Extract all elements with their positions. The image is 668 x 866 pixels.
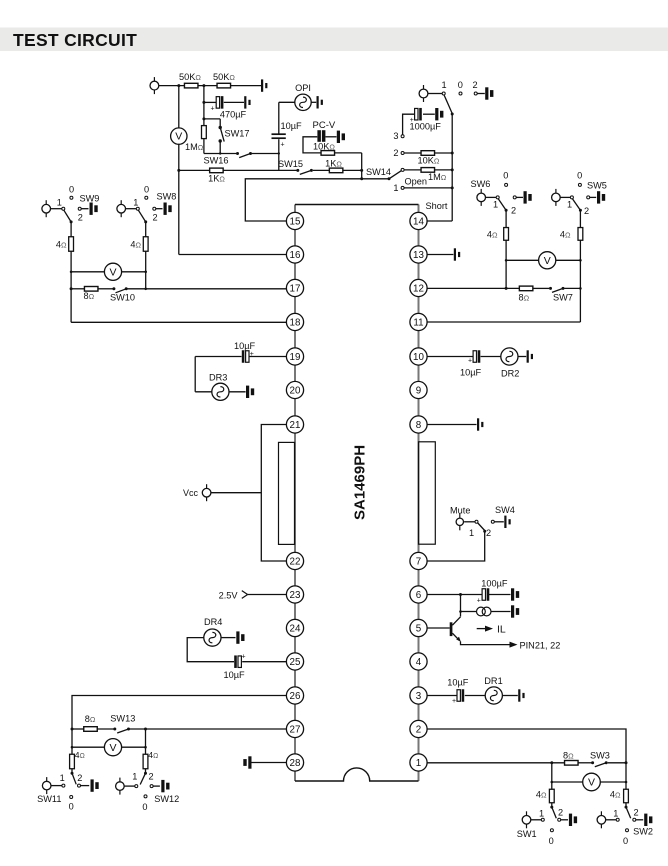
svg-text:11: 11 bbox=[413, 317, 423, 328]
svg-text:2: 2 bbox=[393, 148, 398, 158]
svg-text:DR2: DR2 bbox=[501, 369, 519, 379]
svg-text:14: 14 bbox=[413, 216, 424, 227]
svg-text:+: + bbox=[468, 357, 472, 364]
svg-text:DR4: DR4 bbox=[204, 617, 222, 627]
svg-text:Vcc: Vcc bbox=[183, 488, 199, 498]
svg-text:0: 0 bbox=[549, 836, 554, 846]
svg-text:V: V bbox=[544, 255, 551, 267]
svg-text:25: 25 bbox=[290, 657, 301, 668]
svg-text:SW16: SW16 bbox=[204, 156, 229, 166]
svg-text:10KΩ: 10KΩ bbox=[313, 142, 335, 152]
svg-text:0: 0 bbox=[69, 802, 74, 812]
svg-text:V: V bbox=[109, 266, 116, 278]
svg-text:SA1469PH: SA1469PH bbox=[351, 445, 368, 520]
svg-text:+: + bbox=[280, 142, 284, 149]
svg-text:10µF: 10µF bbox=[224, 670, 246, 680]
svg-text:2: 2 bbox=[486, 528, 491, 538]
svg-text:SW14: SW14 bbox=[366, 167, 391, 177]
svg-text:1KΩ: 1KΩ bbox=[208, 174, 225, 184]
svg-text:28: 28 bbox=[290, 758, 301, 769]
svg-text:DR1: DR1 bbox=[484, 676, 502, 686]
svg-text:4: 4 bbox=[416, 657, 422, 668]
svg-text:9: 9 bbox=[416, 385, 421, 396]
svg-text:6: 6 bbox=[416, 590, 422, 601]
svg-text:SW11: SW11 bbox=[37, 794, 61, 804]
svg-text:SW12: SW12 bbox=[154, 794, 179, 804]
svg-text:2: 2 bbox=[152, 213, 157, 223]
svg-text:1000µF: 1000µF bbox=[410, 121, 442, 131]
svg-text:21: 21 bbox=[290, 420, 301, 431]
svg-text:4Ω: 4Ω bbox=[56, 240, 67, 250]
svg-text:0: 0 bbox=[458, 80, 463, 90]
svg-text:SW3: SW3 bbox=[590, 751, 610, 761]
svg-text:PC-V: PC-V bbox=[313, 120, 336, 131]
svg-text:+: + bbox=[452, 698, 456, 705]
svg-text:1: 1 bbox=[133, 197, 138, 207]
svg-text:0: 0 bbox=[144, 185, 149, 195]
svg-text:1: 1 bbox=[57, 197, 62, 207]
svg-text:SW10: SW10 bbox=[110, 293, 135, 303]
svg-text:Short: Short bbox=[426, 201, 448, 211]
svg-text:470µF: 470µF bbox=[220, 110, 247, 120]
svg-text:+: + bbox=[250, 351, 254, 358]
svg-text:24: 24 bbox=[290, 623, 301, 634]
svg-text:3: 3 bbox=[416, 691, 422, 702]
svg-text:1: 1 bbox=[60, 773, 65, 783]
svg-text:22: 22 bbox=[290, 556, 301, 567]
svg-text:2: 2 bbox=[77, 773, 82, 783]
svg-text:SW2: SW2 bbox=[633, 827, 653, 837]
svg-text:SW15: SW15 bbox=[278, 159, 303, 169]
svg-text:100µF: 100µF bbox=[481, 579, 508, 589]
svg-text:1: 1 bbox=[132, 772, 137, 782]
svg-text:10: 10 bbox=[413, 352, 424, 363]
svg-text:10µF: 10µF bbox=[447, 677, 469, 687]
svg-text:8Ω: 8Ω bbox=[519, 292, 530, 302]
svg-text:2: 2 bbox=[472, 80, 477, 90]
svg-text:20: 20 bbox=[290, 385, 301, 396]
svg-text:+: + bbox=[210, 106, 214, 113]
svg-text:2: 2 bbox=[148, 772, 153, 782]
svg-text:50KΩ: 50KΩ bbox=[179, 72, 201, 82]
svg-text:0: 0 bbox=[142, 802, 147, 812]
svg-text:17: 17 bbox=[290, 283, 301, 294]
svg-text:2: 2 bbox=[558, 808, 563, 818]
svg-text:27: 27 bbox=[290, 724, 301, 735]
svg-text:12: 12 bbox=[413, 283, 424, 294]
svg-text:TEST CIRCUIT: TEST CIRCUIT bbox=[13, 30, 137, 50]
svg-text:PIN21, 22: PIN21, 22 bbox=[520, 641, 561, 651]
svg-text:1: 1 bbox=[539, 808, 544, 818]
svg-text:2: 2 bbox=[511, 206, 516, 216]
svg-text:1: 1 bbox=[469, 528, 474, 538]
svg-text:SW9: SW9 bbox=[80, 194, 100, 204]
svg-text:13: 13 bbox=[413, 250, 424, 261]
svg-text:4Ω: 4Ω bbox=[536, 789, 547, 799]
svg-text:V: V bbox=[588, 777, 595, 789]
svg-text:4Ω: 4Ω bbox=[487, 229, 498, 239]
svg-text:10KΩ: 10KΩ bbox=[418, 156, 440, 166]
svg-text:7: 7 bbox=[416, 556, 421, 567]
svg-text:SW4: SW4 bbox=[495, 505, 515, 515]
svg-text:0: 0 bbox=[577, 171, 582, 181]
svg-text:18: 18 bbox=[290, 317, 301, 328]
svg-text:1: 1 bbox=[416, 758, 421, 769]
svg-text:8Ω: 8Ω bbox=[563, 750, 574, 760]
svg-text:V: V bbox=[175, 131, 182, 143]
svg-text:19: 19 bbox=[290, 352, 301, 363]
svg-text:+: + bbox=[242, 654, 246, 661]
svg-text:0: 0 bbox=[503, 171, 508, 181]
svg-text:IL: IL bbox=[497, 623, 506, 635]
svg-text:10µF: 10µF bbox=[460, 367, 482, 377]
svg-text:Mute: Mute bbox=[450, 506, 470, 516]
svg-text:1: 1 bbox=[567, 200, 572, 210]
svg-text:SW8: SW8 bbox=[157, 192, 177, 202]
svg-text:4Ω: 4Ω bbox=[560, 229, 571, 239]
svg-text:4Ω: 4Ω bbox=[130, 240, 141, 250]
svg-text:OPI: OPI bbox=[295, 83, 311, 93]
svg-text:DR3: DR3 bbox=[209, 373, 227, 383]
svg-text:26: 26 bbox=[290, 691, 301, 702]
svg-text:1: 1 bbox=[493, 200, 498, 210]
svg-text:0: 0 bbox=[69, 185, 74, 195]
svg-text:2: 2 bbox=[584, 206, 589, 216]
svg-text:SW7: SW7 bbox=[553, 293, 573, 303]
svg-text:3: 3 bbox=[393, 131, 398, 141]
svg-text:1: 1 bbox=[442, 80, 447, 90]
svg-text:1MΩ: 1MΩ bbox=[428, 172, 447, 182]
svg-text:8Ω: 8Ω bbox=[85, 714, 96, 724]
svg-text:SW13: SW13 bbox=[110, 713, 135, 723]
svg-text:10µF: 10µF bbox=[281, 121, 303, 131]
svg-text:8Ω: 8Ω bbox=[84, 291, 95, 301]
svg-text:50KΩ: 50KΩ bbox=[213, 72, 235, 82]
svg-text:SW6: SW6 bbox=[471, 179, 491, 189]
svg-text:0: 0 bbox=[623, 836, 628, 846]
svg-text:2: 2 bbox=[633, 808, 638, 818]
svg-text:2: 2 bbox=[416, 724, 421, 735]
svg-text:2: 2 bbox=[78, 213, 83, 223]
svg-text:5: 5 bbox=[416, 623, 422, 634]
svg-text:SW17: SW17 bbox=[225, 129, 250, 139]
svg-text:SW1: SW1 bbox=[517, 829, 537, 839]
svg-text:1: 1 bbox=[393, 183, 398, 193]
svg-text:1: 1 bbox=[613, 808, 618, 818]
svg-text:10µF: 10µF bbox=[234, 341, 256, 351]
svg-text:Open: Open bbox=[405, 176, 427, 186]
svg-text:4Ω: 4Ω bbox=[610, 789, 621, 799]
svg-text:2.5V: 2.5V bbox=[219, 590, 239, 600]
svg-text:V: V bbox=[109, 742, 116, 754]
svg-text:1MΩ: 1MΩ bbox=[185, 142, 204, 152]
svg-text:SW5: SW5 bbox=[587, 181, 607, 191]
svg-text:16: 16 bbox=[290, 250, 301, 261]
svg-text:+: + bbox=[477, 598, 481, 605]
svg-text:8: 8 bbox=[416, 420, 422, 431]
svg-text:1KΩ: 1KΩ bbox=[325, 159, 342, 169]
svg-text:23: 23 bbox=[290, 590, 301, 601]
svg-text:15: 15 bbox=[290, 216, 301, 227]
